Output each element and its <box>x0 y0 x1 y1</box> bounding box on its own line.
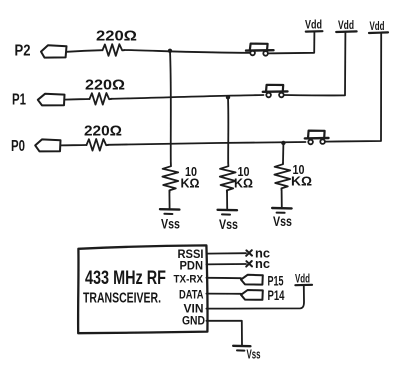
svg-text:TRANSCEIVER.: TRANSCEIVER. <box>83 291 161 307</box>
pin tag P14 <box>241 290 263 300</box>
wire R5 to ground <box>226 191 228 209</box>
svg-text:Vss: Vss <box>219 217 238 232</box>
wire R6 to ground <box>281 190 283 207</box>
ground Vss (GND pin) <box>233 346 260 362</box>
svg-text:Vss: Vss <box>247 348 261 362</box>
svg-text:Vss: Vss <box>273 214 292 229</box>
wire P1 tag to R2 <box>65 98 90 101</box>
wire R4 to ground <box>168 191 170 209</box>
wire junction down to R6 <box>282 143 284 163</box>
resistor R1 220 ohm <box>103 44 125 56</box>
svg-text:P2: P2 <box>15 43 31 60</box>
power Vdd (top 1) <box>305 18 322 32</box>
ground Vss (under R5) <box>218 210 238 232</box>
wire VIN to Vdd <box>206 285 304 308</box>
svg-text:Vdd: Vdd <box>295 272 310 286</box>
svg-text:Vdd: Vdd <box>338 18 354 32</box>
wire S3 to Vdd <box>325 33 381 142</box>
wire DATA to P14 <box>206 293 241 295</box>
svg-text:Vss: Vss <box>161 217 180 232</box>
resistor R6 10 kohm <box>274 163 290 190</box>
pin tag P2 <box>41 45 67 57</box>
svg-text:DATA: DATA <box>179 288 204 302</box>
svg-text:220Ω: 220Ω <box>96 29 137 45</box>
svg-text:220Ω: 220Ω <box>84 124 122 140</box>
ground Vss (under R4) <box>160 209 180 231</box>
junction node P2/R4 <box>168 49 172 53</box>
svg-text:Vdd: Vdd <box>370 19 385 33</box>
svg-text:nc: nc <box>255 256 270 271</box>
resistor R3 220 ohm <box>87 139 109 151</box>
wire R2 to switch S2 <box>111 95 264 99</box>
wire junction down to R4 <box>169 51 172 163</box>
svg-text:PDN: PDN <box>180 259 204 273</box>
resistor R4 10 kohm <box>162 163 178 192</box>
wire PDN to nc <box>206 263 246 265</box>
svg-text:GND: GND <box>182 314 205 328</box>
wire RSSI to nc <box>206 252 246 254</box>
wire GND to ground <box>206 321 242 345</box>
no-connect mark (RSSI) <box>246 250 252 256</box>
wire TX-RX to P15 <box>206 277 241 279</box>
ground Vss (under R6) <box>272 208 292 229</box>
pin tag P1 <box>38 94 65 106</box>
wire P2 tag to R1 <box>67 50 103 52</box>
svg-text:KΩ: KΩ <box>234 176 253 191</box>
pushbutton S2 <box>263 85 288 97</box>
pushbutton S3 <box>305 131 329 145</box>
svg-text:433 MHz RF: 433 MHz RF <box>85 268 166 289</box>
svg-text:KΩ: KΩ <box>181 176 200 191</box>
junction node P0/R6 <box>281 141 285 145</box>
pin tag P15 <box>241 275 263 285</box>
pin tag P0 <box>35 139 60 151</box>
svg-text:P14: P14 <box>268 288 285 303</box>
power Vdd (bottom) <box>295 272 312 286</box>
wire R1 to switch S1 <box>124 50 250 53</box>
svg-text:P0: P0 <box>11 138 25 155</box>
wire P0 tag to R3 <box>61 144 87 146</box>
svg-text:220Ω: 220Ω <box>85 78 125 94</box>
value label 10 kohm (R6) <box>291 162 312 189</box>
svg-text:KΩ: KΩ <box>291 174 312 189</box>
power Vdd (top 3) <box>369 19 388 33</box>
svg-text:P1: P1 <box>12 92 26 109</box>
value label 10 kohm (R4) <box>181 164 200 191</box>
wire S1 to Vdd <box>268 32 314 54</box>
wire junction down to R5 <box>227 97 229 163</box>
resistor R5 10 kohm <box>220 163 236 192</box>
svg-text:P15: P15 <box>268 274 284 289</box>
svg-text:Vdd: Vdd <box>305 18 322 32</box>
wire S2 to Vdd <box>284 32 345 95</box>
resistor R2 220 ohm <box>90 93 112 105</box>
pushbutton S1 <box>246 44 274 56</box>
wire R3 to switch S3 <box>108 142 306 145</box>
IC U1 433 MHz RF transceiver box <box>78 245 207 333</box>
no-connect mark (PDN) <box>246 261 252 267</box>
power Vdd (top 2) <box>336 18 356 32</box>
junction node P1/R5 <box>226 95 230 99</box>
svg-text:TX-RX: TX-RX <box>174 274 204 286</box>
value label 10 kohm (R5) <box>234 164 253 191</box>
